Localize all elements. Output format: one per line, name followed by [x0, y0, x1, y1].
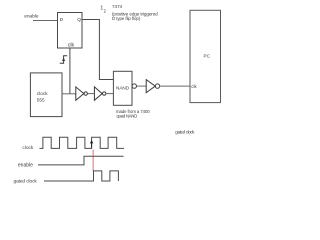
svg-text:PC: PC — [204, 54, 211, 59]
gated clock waveform — [44, 171, 118, 181]
arrow marker on clock rising edge — [90, 140, 93, 148]
red timing marker line — [92, 150, 94, 172]
enable waveform — [38, 156, 124, 165]
inverter U2A — [76, 87, 88, 100]
svg-text:enable: enable — [18, 162, 33, 168]
wire flip-flop clk down to clock net — [69, 48, 71, 94]
inverter U2B — [94, 87, 106, 100]
svg-text:Q: Q — [77, 17, 81, 23]
note 1/2 7474 — [100, 4, 158, 21]
wire enable to D input — [33, 20, 58, 22]
svg-text:555: 555 — [37, 98, 45, 104]
svg-text:enable: enable — [24, 14, 39, 20]
NAND output bubble — [132, 84, 136, 88]
svg-text:D: D — [60, 17, 64, 23]
svg-text:gated clock: gated clock — [14, 179, 38, 185]
svg-text:7474: 7474 — [112, 4, 123, 9]
svg-text:gated clock: gated clock — [175, 130, 195, 135]
wire NAND output to inverter 3 — [137, 85, 147, 87]
wire inverter 1 to inverter 2 — [87, 93, 94, 95]
svg-text:clk: clk — [68, 43, 75, 49]
PC box — [190, 10, 221, 102]
flip-flop U1 box 7474 — [58, 13, 83, 49]
wire clock box to inverter 1 — [62, 93, 76, 95]
svg-text:D type flip flop): D type flip flop) — [112, 16, 141, 21]
wire inverter 2 to NAND input 2 — [106, 93, 114, 95]
svg-text:clock: clock — [22, 145, 34, 151]
svg-text:NAND: NAND — [116, 85, 130, 90]
NAND gate U3 box — [113, 71, 132, 105]
wire Q output to NAND input 1 — [82, 20, 113, 80]
clock box 555 — [30, 73, 62, 117]
svg-text:clk: clk — [191, 84, 197, 89]
note made from a 7400 quad NAND — [116, 109, 150, 118]
clock waveform — [40, 137, 125, 148]
svg-text:quad NAND: quad NAND — [117, 113, 138, 118]
svg-text:clock: clock — [37, 91, 49, 97]
rising edge symbol at clk — [60, 56, 67, 63]
wire gated clock to PC clk — [160, 85, 190, 87]
inverter U4 — [146, 80, 160, 93]
